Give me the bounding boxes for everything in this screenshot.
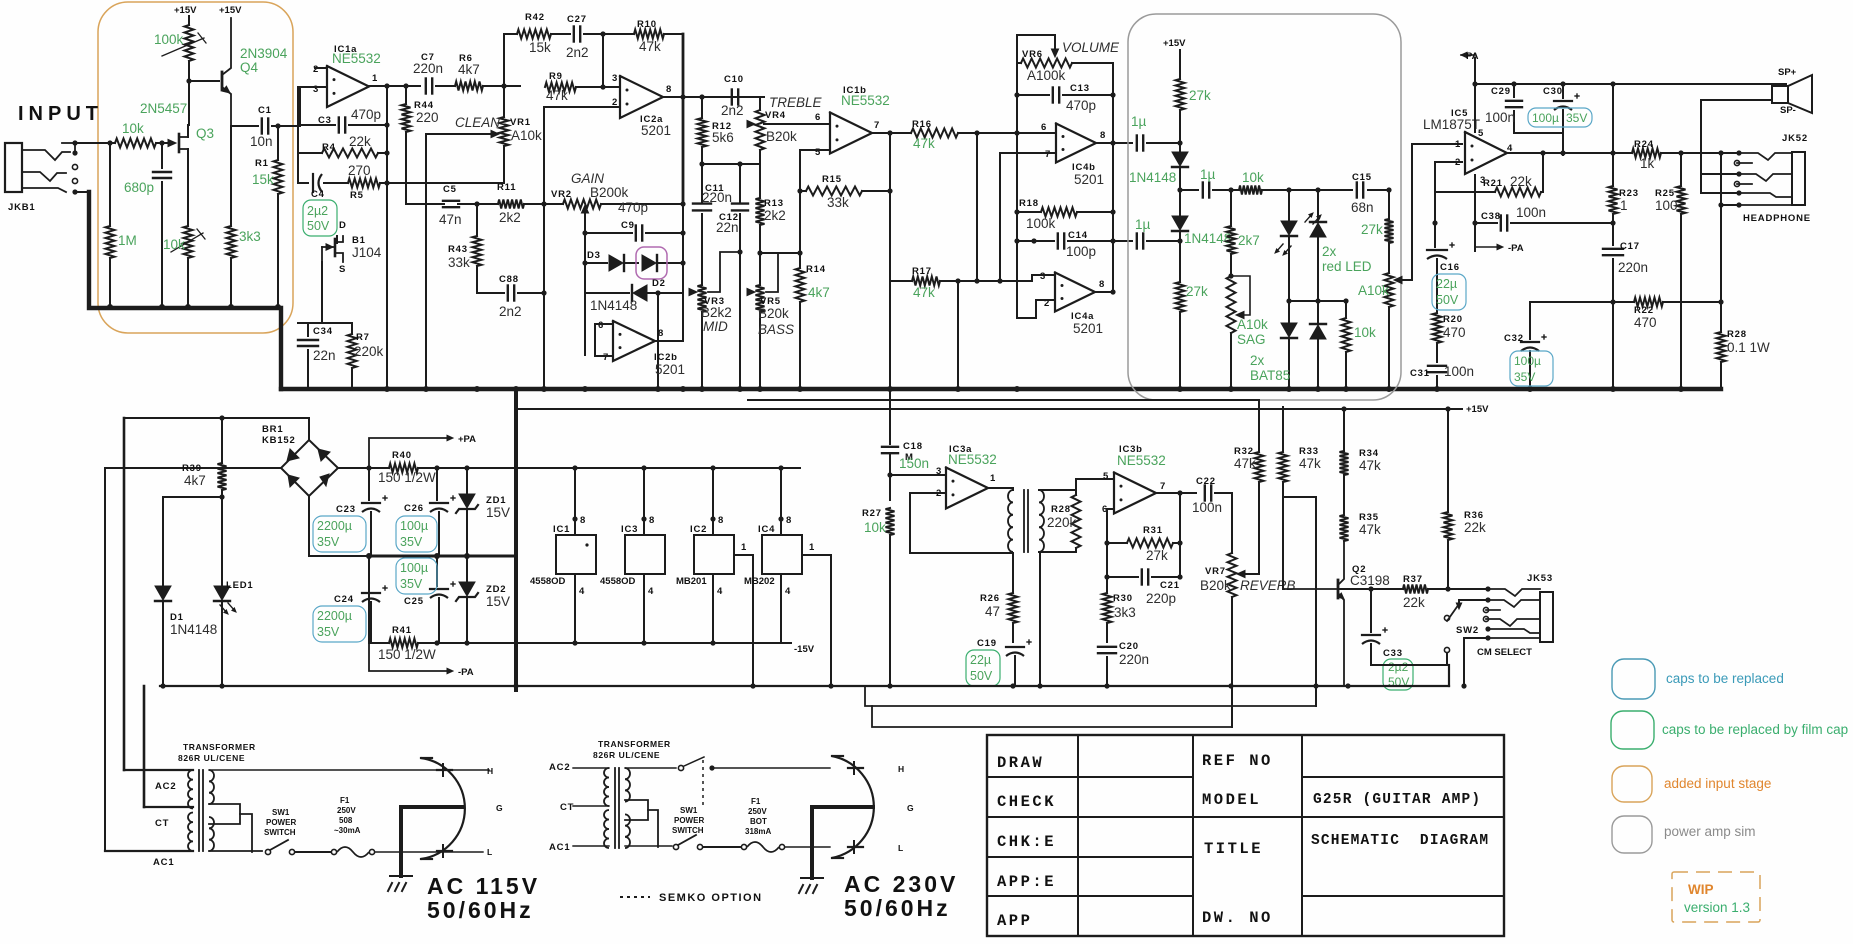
svg-text:1M: 1M xyxy=(118,233,137,248)
bridge rectifier BR1 KB152 xyxy=(308,418,310,440)
svg-text:R14: R14 xyxy=(806,264,826,275)
diode 1N4148 upper xyxy=(1172,152,1188,166)
wire volume col left xyxy=(1016,63,1018,318)
svg-text:CLEAN: CLEAN xyxy=(455,115,500,130)
svg-text:15k: 15k xyxy=(529,40,551,55)
wire left column AC1 xyxy=(104,468,106,851)
op-amp IC2b xyxy=(613,321,655,361)
svg-text:47k: 47k xyxy=(639,39,661,54)
svg-text:added input stage: added input stage xyxy=(1664,776,1771,791)
svg-text:1: 1 xyxy=(809,542,815,553)
svg-text:C18: C18 xyxy=(903,441,923,452)
resistor 10k input series xyxy=(115,139,156,148)
svg-text:R41: R41 xyxy=(392,625,412,636)
feedback R21 22k xyxy=(1542,153,1544,192)
svg-text:TRANSFORMER: TRANSFORMER xyxy=(183,742,256,752)
svg-text:8: 8 xyxy=(786,515,792,526)
svg-text:C10: C10 xyxy=(724,74,744,85)
resistor R4 22k xyxy=(298,152,322,154)
svg-text:VR6: VR6 xyxy=(1022,49,1043,60)
svg-text:L: L xyxy=(487,847,492,857)
potentiometer A10k SAG xyxy=(1228,273,1233,278)
potentiometer VR5 B20k bass xyxy=(757,250,762,255)
wire CT column xyxy=(143,686,146,807)
svg-text:INPUT: INPUT xyxy=(18,103,103,125)
wire T2 primary stubs xyxy=(573,767,609,769)
wire IC4a pin2 loop xyxy=(1017,300,1055,318)
resistor R42 15k xyxy=(517,30,551,39)
svg-text:G25R (GUITAR AMP): G25R (GUITAR AMP) xyxy=(1313,792,1481,808)
svg-text:L: L xyxy=(898,843,903,853)
svg-text:4: 4 xyxy=(648,586,654,597)
svg-text:50V: 50V xyxy=(970,669,993,683)
wire volume col right xyxy=(1112,63,1114,292)
legend caps film xyxy=(1611,711,1654,749)
svg-text:SCHEMATIC DIAGRAM: SCHEMATIC DIAGRAM xyxy=(1311,833,1489,849)
svg-text:POWER: POWER xyxy=(266,818,296,827)
node Q4 base junction xyxy=(186,78,191,83)
wire +PA column xyxy=(1474,58,1476,132)
svg-text:C17: C17 xyxy=(1620,241,1640,252)
wire junction down to IC2a pin3 xyxy=(603,34,618,87)
wire transformer ground xyxy=(1039,552,1041,686)
row 1u 10k to C15 xyxy=(1180,189,1198,191)
svg-text:6: 6 xyxy=(815,112,821,123)
capacitor C7 220n xyxy=(425,79,427,94)
svg-text:POWER: POWER xyxy=(674,816,704,825)
svg-text:3: 3 xyxy=(936,466,942,477)
svg-text:100: 100 xyxy=(1655,198,1678,213)
resistor R18 100k xyxy=(1017,211,1041,213)
potentiometer A10k master xyxy=(1385,273,1394,307)
wire IC3b output xyxy=(1156,492,1196,494)
op-amp IC4a xyxy=(1055,273,1095,312)
svg-text:BASS: BASS xyxy=(758,322,794,337)
svg-text:~30mA: ~30mA xyxy=(334,826,361,835)
svg-text:C16: C16 xyxy=(1440,262,1460,273)
svg-text:AC 115V: AC 115V xyxy=(427,873,540,899)
svg-text:2200µ: 2200µ xyxy=(317,609,352,623)
wire VR4 bottom xyxy=(759,150,761,164)
JFET Q3 2N5457 xyxy=(168,139,176,146)
svg-text:JK53: JK53 xyxy=(1527,573,1553,584)
svg-text:power amp sim: power amp sim xyxy=(1664,824,1756,839)
svg-text:8: 8 xyxy=(580,515,586,526)
mains plug 230V xyxy=(832,756,874,858)
svg-text:1µ: 1µ xyxy=(1200,167,1216,182)
svg-text:REVERB: REVERB xyxy=(1240,578,1296,593)
svg-text:470p: 470p xyxy=(351,107,381,122)
capacitor C22 100n xyxy=(1204,486,1206,501)
capacitor C31 100n xyxy=(1428,365,1446,367)
resistor R33 47k xyxy=(1279,452,1288,482)
ground 230V xyxy=(810,807,814,878)
svg-text:C26: C26 xyxy=(404,503,424,514)
svg-text:AC 230V: AC 230V xyxy=(844,871,958,897)
svg-text:+15V: +15V xyxy=(174,5,197,16)
svg-text:VR2: VR2 xyxy=(551,189,572,200)
svg-text:22k: 22k xyxy=(1510,174,1532,189)
svg-text:C25: C25 xyxy=(404,596,424,607)
svg-text:35V: 35V xyxy=(1566,111,1587,125)
wire IC2a pin2 from feedback col xyxy=(544,106,618,108)
potentiometer VR2 B200k gain xyxy=(563,200,601,209)
WIP box xyxy=(1672,872,1760,922)
resistor R39 4k7 xyxy=(221,418,223,463)
resistor R40 150 1/2W xyxy=(389,464,418,473)
svg-text:-15V: -15V xyxy=(794,644,815,655)
svg-text:3: 3 xyxy=(612,73,618,84)
resistor R16 47k xyxy=(911,129,958,138)
svg-text:10k: 10k xyxy=(1354,325,1376,340)
svg-text:R5: R5 xyxy=(350,190,364,201)
wire J104 gate to C34 xyxy=(321,262,323,323)
resistor R14 4k7 xyxy=(796,268,805,302)
svg-text:10n: 10n xyxy=(250,134,273,149)
wire 100k bottom to junction xyxy=(188,61,190,81)
wire pin5 stub xyxy=(816,149,830,151)
svg-text:AC2: AC2 xyxy=(155,781,176,792)
svg-text:GAIN: GAIN xyxy=(571,171,604,186)
svg-text:D2: D2 xyxy=(652,278,666,289)
svg-text:47: 47 xyxy=(985,604,1000,619)
capacitor 1u mid xyxy=(1202,183,1204,198)
svg-text:SWITCH: SWITCH xyxy=(264,828,296,837)
svg-text:68n: 68n xyxy=(1351,200,1374,215)
capacitor C14 100p xyxy=(1017,240,1054,242)
svg-text:IC1: IC1 xyxy=(553,524,570,535)
green box C19 value xyxy=(966,650,1000,686)
regulator IC2 MB201 xyxy=(712,468,714,535)
wire R16 junction down xyxy=(889,133,891,281)
svg-text:VOLUME: VOLUME xyxy=(1062,40,1120,55)
svg-text:caps to be replaced by film ca: caps to be replaced by film cap xyxy=(1662,722,1848,737)
svg-text:SEMKO OPTION: SEMKO OPTION xyxy=(659,892,763,904)
resistor R32 47k xyxy=(1258,497,1260,574)
svg-text:+15V: +15V xyxy=(219,5,242,16)
svg-text:8: 8 xyxy=(1100,130,1106,141)
svg-text:100p: 100p xyxy=(1066,244,1096,259)
svg-text:47k: 47k xyxy=(1359,522,1381,537)
node R6/VR1/R42 xyxy=(501,83,506,88)
wire pin7 from below xyxy=(1000,153,1056,281)
blue box C23 value xyxy=(313,516,366,552)
rail y407 from ground col xyxy=(516,408,1448,410)
svg-text:8: 8 xyxy=(649,515,655,526)
svg-text:APP:E: APP:E xyxy=(997,873,1056,891)
svg-text:C13: C13 xyxy=(1070,83,1090,94)
svg-text:MB201: MB201 xyxy=(676,576,707,587)
wire VR5 node to R14 col xyxy=(760,252,800,254)
wire IC3b feedback loop xyxy=(1107,509,1114,593)
variable resistor 100k xyxy=(185,25,194,61)
svg-text:JKB1: JKB1 xyxy=(8,202,36,213)
svg-text:KB152: KB152 xyxy=(262,435,296,446)
svg-text:150 1/2W: 150 1/2W xyxy=(378,647,436,662)
capacitor C23 2200u 35V xyxy=(368,468,370,500)
svg-text:2: 2 xyxy=(612,97,618,108)
fuse F1 115V xyxy=(331,849,336,854)
svg-text:100µ: 100µ xyxy=(1514,354,1541,368)
svg-text:2N3904: 2N3904 xyxy=(240,46,288,61)
wire jack ring to SP- xyxy=(1701,173,1739,175)
regulator IC1 4558OD xyxy=(574,468,576,535)
svg-text:1: 1 xyxy=(1620,198,1628,213)
wire diode col x683 xyxy=(682,203,684,293)
row R11 gain xyxy=(406,203,444,205)
svg-text:35V: 35V xyxy=(400,535,423,549)
svg-text:2µ2: 2µ2 xyxy=(1388,660,1409,674)
wire T1 primary taps xyxy=(124,769,193,771)
wire input tip to 10k xyxy=(75,142,115,144)
svg-text:D3: D3 xyxy=(587,250,601,261)
svg-text:10k: 10k xyxy=(864,520,886,535)
svg-text:470p: 470p xyxy=(618,200,648,215)
switch SW2 xyxy=(1444,615,1449,620)
speaker SP xyxy=(1785,84,1787,86)
resistor R20 470 xyxy=(1433,313,1442,343)
svg-text:2x: 2x xyxy=(1250,353,1265,368)
wire D1 LED1 top row xyxy=(163,496,222,498)
transistor Q2 C3198 xyxy=(1337,580,1340,598)
svg-text:47k: 47k xyxy=(1359,458,1381,473)
capacitor C12 22n xyxy=(739,164,741,203)
svg-text:220k: 220k xyxy=(354,344,384,359)
svg-text:C19: C19 xyxy=(977,638,997,649)
svg-text:470: 470 xyxy=(1634,315,1657,330)
svg-text:2N5457: 2N5457 xyxy=(140,101,187,116)
wire SAG bracket xyxy=(1231,276,1250,315)
svg-text:MB202: MB202 xyxy=(744,576,775,587)
svg-text:JK52: JK52 xyxy=(1782,133,1808,144)
capacitor C5 47n xyxy=(443,200,459,202)
op-amp IC1b xyxy=(830,113,872,154)
svg-text:H: H xyxy=(898,764,904,774)
svg-text:AC1: AC1 xyxy=(153,857,174,868)
green box C33 value xyxy=(1383,659,1413,690)
svg-text:100µ: 100µ xyxy=(1532,111,1559,125)
svg-text:2k2: 2k2 xyxy=(764,208,786,223)
resistor 2k7 column xyxy=(1230,190,1232,226)
svg-text:C20: C20 xyxy=(1119,641,1139,652)
svg-text:100n: 100n xyxy=(1192,500,1222,515)
wire SP- to jack xyxy=(1701,100,1772,193)
svg-text:APP: APP xyxy=(997,912,1032,930)
svg-text:DRAW: DRAW xyxy=(997,754,1044,772)
svg-text:A100k: A100k xyxy=(1027,68,1066,83)
wire x890 down to C18 xyxy=(889,281,891,444)
capacitor C32 100u 35V xyxy=(1529,302,1531,339)
svg-text:A10k: A10k xyxy=(1358,283,1389,298)
svg-text:H: H xyxy=(487,766,493,776)
resistor R15 33k xyxy=(800,190,806,192)
svg-text:A10k: A10k xyxy=(511,128,542,143)
capacitor C30 100u 35V xyxy=(1562,84,1564,98)
svg-text:50/60Hz: 50/60Hz xyxy=(844,895,951,921)
svg-text:SWITCH: SWITCH xyxy=(672,826,704,835)
diode 1N4148 lower xyxy=(1172,216,1188,230)
svg-text:680p: 680p xyxy=(124,180,154,195)
wire 100k to +15V xyxy=(188,16,190,25)
resistor R17 47k row xyxy=(890,280,912,282)
svg-text:+15V: +15V xyxy=(1466,404,1489,415)
svg-text:4558OD: 4558OD xyxy=(600,576,636,587)
op-amp IC1a xyxy=(327,66,369,107)
svg-text:C27: C27 xyxy=(567,14,587,25)
svg-text:BAT85: BAT85 xyxy=(1250,368,1290,383)
svg-text:R9: R9 xyxy=(549,71,563,82)
SEMKO option legend xyxy=(620,896,650,898)
svg-text:826R UL/CENE: 826R UL/CENE xyxy=(593,750,660,760)
svg-text:R21: R21 xyxy=(1483,178,1503,189)
svg-text:B20k: B20k xyxy=(758,306,789,321)
resistor R35 47k xyxy=(1343,475,1345,515)
svg-text:CT: CT xyxy=(560,802,574,813)
svg-text:3k3: 3k3 xyxy=(1114,605,1136,620)
svg-text:R24: R24 xyxy=(1634,139,1654,150)
capacitor C19 22u 50V xyxy=(1006,646,1024,648)
svg-text:220n: 220n xyxy=(413,61,443,76)
wire node up to R42 row xyxy=(504,34,517,86)
svg-text:HEADPHONE: HEADPHONE xyxy=(1743,213,1811,224)
svg-text:C9: C9 xyxy=(621,220,635,231)
svg-text:R10: R10 xyxy=(637,19,657,30)
svg-text:LED1: LED1 xyxy=(226,580,253,591)
svg-text:C31: C31 xyxy=(1410,368,1430,379)
svg-text:22µ: 22µ xyxy=(970,653,991,667)
svg-text:100n: 100n xyxy=(1444,364,1474,379)
svg-text:100k: 100k xyxy=(1026,216,1056,231)
wire jack ring to SW2 xyxy=(1459,600,1488,606)
wire C18 to IC3a pin3 xyxy=(887,472,892,477)
svg-text:C4: C4 xyxy=(311,189,325,200)
svg-text:TRANSFORMER: TRANSFORMER xyxy=(598,739,671,749)
legend added input stage xyxy=(1612,766,1652,802)
svg-text:R43: R43 xyxy=(448,244,468,255)
svg-text:B200k: B200k xyxy=(590,185,629,200)
svg-text:150 1/2W: 150 1/2W xyxy=(378,470,436,485)
svg-text:1N4148: 1N4148 xyxy=(170,622,217,637)
svg-text:5201: 5201 xyxy=(641,123,671,138)
svg-text:4: 4 xyxy=(579,586,585,597)
svg-text:50V: 50V xyxy=(307,219,330,233)
svg-text:1k: 1k xyxy=(1640,156,1655,171)
svg-text:VR4: VR4 xyxy=(765,110,786,121)
svg-text:CM SELECT: CM SELECT xyxy=(1477,647,1532,658)
svg-text:NE5532: NE5532 xyxy=(841,93,890,108)
switch SW1 230V xyxy=(673,844,678,849)
svg-text:R17: R17 xyxy=(912,266,932,277)
label +PA top xyxy=(1461,52,1467,57)
capacitor C24 2200u 35V xyxy=(368,556,370,590)
svg-text:S: S xyxy=(339,264,346,275)
wire IC2b pins xyxy=(595,323,613,325)
input ground bus thick xyxy=(89,192,281,389)
svg-text:R28: R28 xyxy=(1051,504,1071,515)
svg-text:C32: C32 xyxy=(1504,333,1524,344)
svg-text:220n: 220n xyxy=(1618,260,1648,275)
svg-text:47k: 47k xyxy=(913,136,935,151)
svg-text:SW1: SW1 xyxy=(680,806,698,815)
svg-text:27k: 27k xyxy=(1146,548,1168,563)
svg-text:TREBLE: TREBLE xyxy=(769,95,823,110)
svg-text:5: 5 xyxy=(1478,128,1484,139)
svg-text:22n: 22n xyxy=(716,220,739,235)
svg-text:1N4148: 1N4148 xyxy=(1184,231,1231,246)
resistor R23 1 xyxy=(1612,84,1614,186)
svg-text:B20k: B20k xyxy=(1200,578,1231,593)
wire C1 to R1 node xyxy=(272,125,295,127)
wire C27 to R10 xyxy=(584,33,634,35)
svg-text:BR1: BR1 xyxy=(262,424,283,435)
svg-text:5201: 5201 xyxy=(655,362,685,377)
wire secondary to IC3b pin5 xyxy=(1076,479,1114,490)
svg-text:R27: R27 xyxy=(862,508,882,519)
svg-text:B2k2: B2k2 xyxy=(701,305,732,320)
potentiometer VR4 B20k treble xyxy=(756,110,765,150)
svg-text:R4: R4 xyxy=(322,142,336,153)
svg-text:C29: C29 xyxy=(1491,86,1511,97)
svg-text:100µ: 100µ xyxy=(400,519,428,533)
wire VR4 wiper to IC1b pin6 xyxy=(764,123,826,125)
svg-text:BOT: BOT xyxy=(750,817,767,826)
svg-text:10k: 10k xyxy=(163,237,185,252)
switch SEMKO dashed 230V xyxy=(678,765,683,770)
wire pin3 stub xyxy=(315,86,327,88)
wire VR1 bottom xyxy=(503,146,505,183)
svg-text:SAG: SAG xyxy=(1237,332,1266,347)
svg-text:R31: R31 xyxy=(1143,525,1163,536)
wire R6 to node xyxy=(483,85,520,87)
svg-text:470p: 470p xyxy=(1066,98,1096,113)
zener ZD2 15V xyxy=(466,556,468,582)
resistor R11 2k2 xyxy=(477,203,498,205)
svg-text:47k: 47k xyxy=(1299,456,1321,471)
svg-text:Q4: Q4 xyxy=(240,60,259,75)
wire IC3a pin2 loop xyxy=(910,493,1013,553)
svg-text:R37: R37 xyxy=(1403,574,1423,585)
resistor R12 5k6 xyxy=(701,97,703,118)
resistor 27k lower xyxy=(1176,282,1185,312)
svg-text:R30: R30 xyxy=(1113,593,1133,604)
wire transformer secondary xyxy=(1039,489,1076,491)
svg-text:NE5532: NE5532 xyxy=(332,51,381,66)
svg-text:8: 8 xyxy=(666,84,672,95)
resistor R6 4k7 xyxy=(455,82,483,91)
svg-text:C34: C34 xyxy=(313,326,333,337)
svg-text:-PA: -PA xyxy=(1508,243,1524,254)
svg-text:CHK:E: CHK:E xyxy=(997,833,1056,851)
diode D4 in purple box xyxy=(626,262,638,264)
svg-text:caps to be replaced: caps to be replaced xyxy=(1666,671,1784,686)
resistor R43 33k xyxy=(473,236,482,266)
wire IC4a pin3 xyxy=(1032,275,1055,281)
op-amp IC3a xyxy=(946,468,988,509)
svg-text:IC2: IC2 xyxy=(690,524,707,535)
svg-text:27k: 27k xyxy=(1361,222,1383,237)
resistor 3k3 xyxy=(230,126,232,226)
capacitor C27 2n2 xyxy=(573,27,575,42)
capacitor C38 100n xyxy=(1474,175,1476,251)
svg-text:270: 270 xyxy=(348,163,371,178)
wire IC4b output xyxy=(1095,142,1132,144)
reverb transformer xyxy=(1008,490,1013,552)
wire IC4a output xyxy=(1094,291,1113,293)
svg-text:100n: 100n xyxy=(1516,205,1546,220)
svg-text:3k3: 3k3 xyxy=(239,229,261,244)
svg-text:C5: C5 xyxy=(443,184,457,195)
svg-text:2k2: 2k2 xyxy=(499,210,521,225)
